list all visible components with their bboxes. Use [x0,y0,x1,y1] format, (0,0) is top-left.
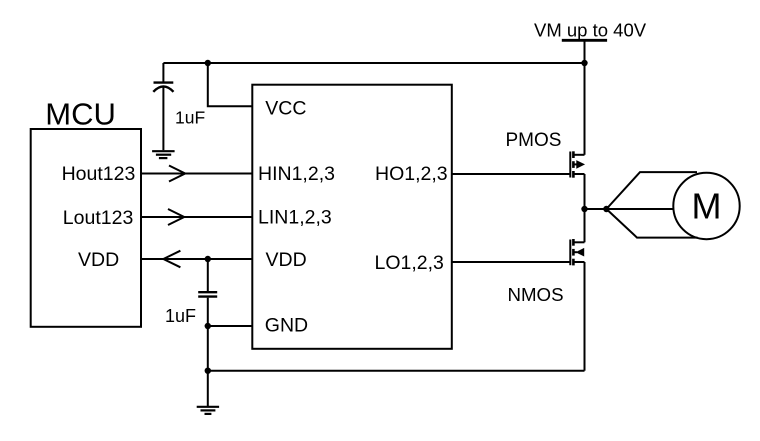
svg-text:1uF: 1uF [175,108,205,128]
svg-text:HO1,2,3: HO1,2,3 [375,163,448,185]
wire GND stub [208,325,253,327]
junction dot VDD/C2 [205,256,211,262]
wire Hout123 to HIN1,2,3 [141,173,252,175]
wire C2/GND node down to bottom rail [207,326,209,371]
wire PMOS source down to phase node [584,174,586,209]
svg-text:VDD: VDD [78,249,119,271]
bottom ground rail wire [208,370,585,372]
wire HO1,2,3 to PMOS gate [452,173,571,175]
signal arrow on LIN wire [168,209,184,225]
phase rail wire [585,208,607,210]
transistor Q2 NMOS [570,239,584,265]
svg-text:NMOS: NMOS [508,284,564,305]
wire NMOS drain up to phase node [584,209,586,242]
wire down to ground G2 [207,371,209,406]
junction dot motor node [603,206,609,212]
svg-text:HIN1,2,3: HIN1,2,3 [258,163,335,185]
svg-text:1uF: 1uF [165,306,196,326]
wire VDD (IC to MCU) [141,258,252,260]
svg-text:Lout123: Lout123 [63,207,134,229]
motor wire middle [606,208,673,210]
svg-text:LO1,2,3: LO1,2,3 [375,252,444,274]
capacitor C1 1uF polarized [153,63,173,150]
junction dot rail/VCC stub [205,60,211,66]
wire rail down to PMOS drain [584,63,586,155]
svg-text:Hout123: Hout123 [62,163,136,185]
top VCC rail wire [163,62,584,64]
svg-text:VDD: VDD [266,249,307,271]
signal arrow on HIN wire [169,166,185,182]
MCU box [31,129,141,327]
svg-text:GND: GND [265,315,308,337]
svg-text:LIN1,2,3: LIN1,2,3 [258,207,332,229]
junction dot phase node [581,206,587,212]
wire LO1,2,3 to NMOS gate [452,261,571,263]
svg-text:PMOS: PMOS [506,130,562,151]
capacitor C2 1uF [198,259,217,326]
junction dot rail/VM [581,60,587,66]
junction dot bottom rail [205,368,211,374]
ground G1 [152,151,175,158]
svg-text:M: M [692,185,722,226]
wire NMOS source down to bottom rail [584,262,586,371]
svg-text:VCC: VCC [265,98,306,120]
VM supply bar [562,39,607,42]
transistor Q1 PMOS [570,151,584,177]
gate driver IC U1 box [252,85,451,349]
motor wire top [606,172,697,209]
junction dot GND node [205,323,211,329]
VCC stub wire [208,63,253,106]
wire Lout123 to LIN1,2,3 [141,216,252,218]
ground G2 [197,407,219,414]
signal arrow on VDD wire pointing left [163,251,180,268]
svg-text:MCU: MCU [45,97,116,132]
wire VM bar to rail [584,40,586,63]
motor M1 circle [673,173,739,239]
svg-text:VM up to 40V: VM up to 40V [534,20,647,41]
motor wire bottom [606,209,697,238]
